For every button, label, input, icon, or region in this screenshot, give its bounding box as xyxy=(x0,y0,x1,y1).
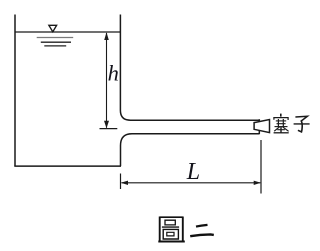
h dimension top arrowhead xyxy=(104,32,109,40)
label saizi (plug) hand-drawn glyph 子 xyxy=(294,116,310,132)
L dimension right arrowhead xyxy=(254,181,261,185)
h dimension bottom tick xyxy=(100,128,118,130)
water surface line xyxy=(15,31,120,33)
svg-text:h: h xyxy=(108,61,119,86)
tank bottom wall xyxy=(14,165,121,167)
L dimension line xyxy=(122,182,261,184)
L dimension left tick xyxy=(120,174,122,190)
h dimension line xyxy=(106,33,108,128)
water surface triangle symbol xyxy=(49,25,57,32)
water hatch line 1 xyxy=(37,37,73,39)
caption hand-drawn glyph 二 xyxy=(190,225,214,236)
L dimension left arrowhead xyxy=(121,181,128,185)
label saizi (plug) hand-drawn glyph 塞 xyxy=(274,114,289,133)
tank right wall lower and pipe bottom wall xyxy=(121,134,260,166)
water hatch line 2 xyxy=(41,41,71,43)
tank left wall xyxy=(14,15,16,167)
L dimension right tick xyxy=(260,140,262,194)
caption hand-drawn glyph 圖 xyxy=(158,217,185,242)
tank right wall upper and pipe top wall xyxy=(120,15,259,121)
plug (stopper) body xyxy=(254,120,269,133)
h dimension bottom arrowhead xyxy=(104,121,109,129)
pipe end cap xyxy=(258,119,260,134)
water hatch line 3 xyxy=(44,45,66,47)
svg-text:L: L xyxy=(186,159,200,185)
